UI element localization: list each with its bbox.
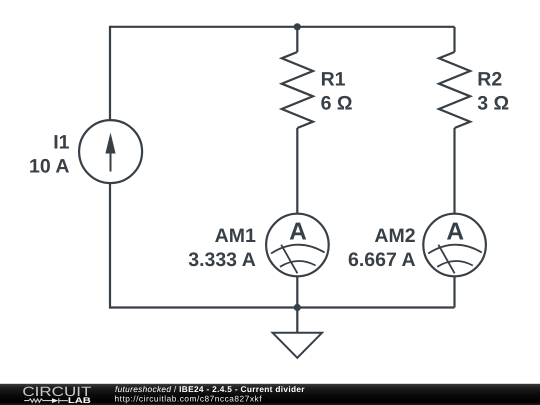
svg-text:I1: I1 [53, 132, 69, 154]
svg-text:http://circuitlab.com/c87ncca8: http://circuitlab.com/c87ncca827xkf [115, 394, 263, 404]
svg-text:LAB: LAB [68, 396, 91, 405]
svg-text:R2: R2 [477, 69, 502, 91]
svg-text:10 A: 10 A [29, 156, 69, 178]
svg-text:A: A [289, 219, 307, 246]
svg-text:6.667 A: 6.667 A [348, 249, 416, 271]
svg-text:AM1: AM1 [215, 225, 256, 247]
svg-text:3.333 A: 3.333 A [188, 249, 256, 271]
svg-text:3 Ω: 3 Ω [477, 93, 509, 115]
svg-text:A: A [446, 219, 464, 246]
svg-text:R1: R1 [321, 69, 346, 91]
svg-text:6 Ω: 6 Ω [321, 93, 353, 115]
svg-text:AM2: AM2 [374, 225, 415, 247]
